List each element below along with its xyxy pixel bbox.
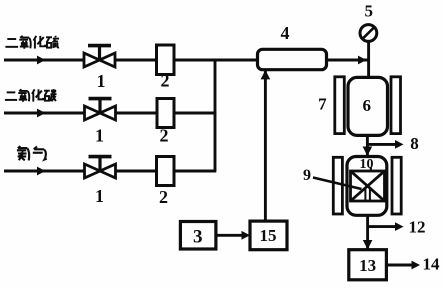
svg-text:9: 9: [303, 167, 311, 184]
wire meter-bus (row 2): [174, 112, 216, 115]
svg-text:13: 13: [359, 256, 376, 275]
valve 1 (row 3) bowtie: [85, 157, 116, 178]
svg-text:1: 1: [97, 71, 106, 91]
label 9: [303, 167, 311, 184]
wire box15-mixer4: [264, 71, 267, 222]
label CO2 feed 二氧化碳: [5, 89, 57, 102]
svg-text:14: 14: [423, 255, 441, 274]
arrow feed 1: [37, 56, 46, 65]
wire meter-bus (row 3): [174, 170, 216, 173]
mixer 4: [258, 49, 327, 69]
leader line 9: [313, 178, 362, 190]
box 15: [250, 221, 287, 250]
flow meter 2 (row 3): [157, 157, 175, 186]
wire bus vertical: [214, 59, 217, 171]
label 1 (row 1): [97, 71, 106, 91]
vessel 6: [348, 77, 388, 135]
label NH3 feed 氨气: [17, 146, 47, 160]
flow meter 2 (row 2): [157, 99, 174, 128]
box 13: [349, 250, 387, 280]
label 6: [362, 96, 371, 115]
jacket left bar (reactor): [333, 157, 342, 214]
wire vessel6-vessel10: [366, 135, 369, 155]
svg-text:2: 2: [161, 71, 170, 91]
arrow 14: [386, 261, 420, 270]
wire meter-mixer (row 1): [174, 59, 258, 62]
wire valve1-meter (row 1): [115, 59, 157, 62]
jacket right bar (reactor): [392, 157, 401, 214]
stirrer crossed box: [351, 171, 385, 201]
label SO2 feed 二氧化硫: [5, 36, 59, 49]
svg-text:15: 15: [260, 226, 277, 245]
jacket 7 right bar: [391, 77, 401, 134]
arrow into mixer 4: [261, 70, 271, 80]
wire gauge stem: [367, 41, 370, 78]
svg-text:6: 6: [362, 96, 371, 115]
valve 1 (row 2) bowtie: [85, 99, 116, 120]
arrow into vessel 10: [363, 147, 373, 157]
svg-text:8: 8: [410, 134, 419, 153]
svg-text:5: 5: [365, 2, 374, 21]
arrow box3-box15: [216, 231, 250, 240]
wire valve1-meter (row 3): [116, 170, 157, 173]
wire valve1-meter (row 2): [116, 112, 158, 115]
wire feed 1 inlet: [4, 59, 84, 62]
gauge 5: [360, 25, 377, 42]
agitator shaft: [370, 167, 372, 171]
label 15: [260, 226, 277, 245]
svg-text:1: 1: [95, 125, 104, 145]
svg-text:7: 7: [318, 95, 327, 114]
arrow feed 3: [37, 167, 46, 176]
label 2 (row 2): [160, 125, 169, 145]
label 4: [281, 23, 290, 43]
label 2 (row 1): [161, 71, 170, 91]
label 12: [409, 217, 426, 236]
label 5: [365, 2, 374, 21]
flow meter 2 (row 1): [157, 45, 175, 75]
label 8: [410, 134, 419, 153]
box 3: [180, 222, 216, 250]
vessel 10: [347, 157, 387, 216]
wire vessel10-box13: [366, 215, 369, 248]
label 14: [423, 255, 441, 274]
svg-text:3: 3: [193, 227, 203, 248]
label 13: [359, 256, 376, 275]
wire feed 2 inlet: [4, 112, 85, 115]
label 2 (row 3): [159, 187, 168, 207]
svg-text:12: 12: [409, 217, 426, 236]
label 3: [193, 227, 203, 248]
svg-text:1: 1: [95, 186, 104, 206]
svg-text:2: 2: [159, 187, 168, 207]
wire mixer-reactor: [327, 59, 369, 62]
label 7: [318, 95, 327, 114]
arrow 8 branch: [367, 140, 403, 149]
arrow feed 2: [37, 109, 46, 118]
wire feed 3 inlet: [4, 170, 85, 173]
label 1 (row 3): [95, 186, 104, 206]
svg-text:4: 4: [281, 23, 290, 43]
arrow 12 branch: [368, 222, 404, 231]
arrow into vertical: [358, 56, 367, 65]
label 10: [360, 157, 374, 172]
valve 1 (row 1) bowtie: [84, 46, 115, 67]
label 1 (row 2): [95, 125, 104, 145]
jacket 7 left bar: [335, 77, 345, 134]
arrow into box 13: [363, 240, 373, 250]
svg-text:2: 2: [160, 125, 169, 145]
